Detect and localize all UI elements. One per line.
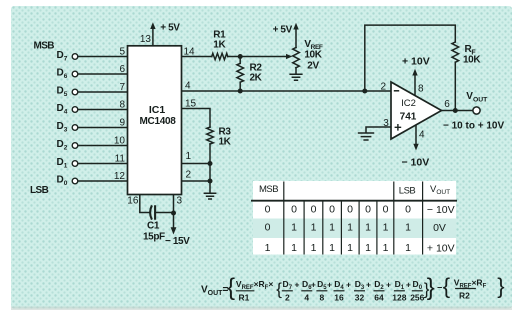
svg-text:1K: 1K xyxy=(213,40,226,51)
svg-text:0: 0 xyxy=(405,204,411,216)
junction node feedback/inverting input xyxy=(362,89,367,94)
svg-text:− 10V: − 10V xyxy=(402,157,430,169)
svg-text:2K: 2K xyxy=(250,73,263,84)
svg-text:1: 1 xyxy=(291,222,297,234)
formula fraction VREF RF over R2 xyxy=(454,278,487,301)
junction node R3/pin 1 xyxy=(208,161,213,166)
junction node pin 2/ground xyxy=(208,179,213,184)
label VREF 10K 2V xyxy=(304,39,323,72)
feedback wire from inverting node to RF xyxy=(365,25,456,91)
svg-text:7: 7 xyxy=(119,82,125,93)
svg-text:1: 1 xyxy=(311,222,317,234)
svg-text:1: 1 xyxy=(329,242,335,254)
svg-text:8: 8 xyxy=(119,100,125,111)
svg-text:{: { xyxy=(227,274,235,301)
svg-text:8: 8 xyxy=(418,84,424,95)
wire +10V arrow shaft pin 8 xyxy=(414,75,416,96)
svg-text:0: 0 xyxy=(311,204,317,216)
svg-text:2: 2 xyxy=(380,82,386,93)
formula D0 over 256 xyxy=(410,279,424,303)
svg-text:14: 14 xyxy=(184,47,196,58)
wire pin 3 to -15V xyxy=(173,195,175,229)
svg-text:R2: R2 xyxy=(459,291,470,301)
formula D2 over 64 xyxy=(374,279,392,303)
ground at VREF xyxy=(289,74,302,80)
svg-text:+: + xyxy=(406,280,411,290)
arrowhead +5V at VREF xyxy=(293,23,298,30)
svg-text:6: 6 xyxy=(444,99,450,110)
svg-text:4: 4 xyxy=(304,293,309,303)
svg-text:− 10V: − 10V xyxy=(427,204,455,216)
svg-text:1: 1 xyxy=(383,242,389,254)
svg-text:{: { xyxy=(443,274,450,299)
table row 1: 00000000 = -10V xyxy=(265,204,455,217)
svg-text:10: 10 xyxy=(114,136,126,147)
svg-text:9: 9 xyxy=(119,118,125,129)
table header underline xyxy=(251,200,457,202)
wire pin 14 to R1 xyxy=(182,56,212,58)
wire op-amp output to VOUT terminal xyxy=(442,110,473,112)
resistor R3 xyxy=(207,127,214,144)
input D1 terminal xyxy=(57,157,128,169)
svg-text:64: 64 xyxy=(374,293,384,303)
label R2 value xyxy=(250,63,263,84)
junction node R2/pin4 wire xyxy=(238,89,243,94)
svg-text:1: 1 xyxy=(329,222,335,234)
svg-text:MSB: MSB xyxy=(34,41,55,52)
svg-text:IC1: IC1 xyxy=(149,104,166,116)
wire +5V supply to pin 13 xyxy=(152,29,154,46)
svg-text:+: + xyxy=(311,280,316,290)
ground at op-amp pin 3 xyxy=(358,133,374,140)
resistor R2 xyxy=(237,57,244,92)
svg-text:2: 2 xyxy=(285,293,290,303)
svg-text:741: 741 xyxy=(400,112,417,123)
formula D4 over 16 xyxy=(334,279,352,303)
table vertical lines xyxy=(284,182,423,255)
svg-text:0: 0 xyxy=(383,204,389,216)
svg-text:5: 5 xyxy=(119,47,125,58)
svg-text:− 15V: − 15V xyxy=(165,236,190,247)
svg-text:LSB: LSB xyxy=(30,185,49,196)
formula D5 over 8 xyxy=(316,279,332,303)
resistor R1 xyxy=(212,53,228,59)
svg-text:11: 11 xyxy=(115,154,126,165)
label C1 value xyxy=(143,221,165,243)
svg-text:6: 6 xyxy=(119,64,125,75)
label RF value xyxy=(463,44,481,66)
svg-text:+: + xyxy=(327,280,332,290)
svg-text:1: 1 xyxy=(365,242,371,254)
svg-text:}: } xyxy=(427,274,435,301)
svg-text:−: − xyxy=(437,283,442,293)
svg-text:1: 1 xyxy=(265,242,271,254)
formula D1 over 128 xyxy=(392,279,411,303)
svg-text:1: 1 xyxy=(347,242,353,254)
svg-text:1: 1 xyxy=(186,151,192,162)
arrowhead +5V at pin 13 xyxy=(150,22,155,29)
svg-text:15: 15 xyxy=(185,99,197,110)
svg-text:10K: 10K xyxy=(463,55,481,66)
formula D3 over 32 xyxy=(354,279,371,303)
op-amp U2 triangle xyxy=(391,82,442,139)
formula D7 over 2 xyxy=(282,279,300,303)
svg-text:256: 256 xyxy=(410,293,424,303)
svg-text:8: 8 xyxy=(320,293,325,303)
svg-text:0: 0 xyxy=(265,222,271,234)
svg-text:16: 16 xyxy=(127,196,139,207)
svg-text:0: 0 xyxy=(265,204,271,216)
wire R1 to VREF wiper xyxy=(228,56,289,58)
svg-text:MC1408: MC1408 xyxy=(140,116,177,127)
input D4 terminal xyxy=(57,103,128,115)
junction node C1/pin 3 xyxy=(171,211,176,216)
svg-text:15pF: 15pF xyxy=(143,232,165,243)
input D2 terminal xyxy=(57,139,128,151)
svg-text:1: 1 xyxy=(405,242,411,254)
output voltage formula xyxy=(201,274,505,303)
svg-text:R1: R1 xyxy=(239,293,250,303)
svg-text:0: 0 xyxy=(329,204,335,216)
capacitor C1 xyxy=(150,205,155,220)
truth table xyxy=(251,181,457,255)
potentiometer VREF zigzag xyxy=(293,48,300,68)
svg-text:4: 4 xyxy=(185,81,191,92)
wire pin 1 xyxy=(182,163,211,165)
label R3 value xyxy=(219,127,232,148)
arrowhead -15V below pin 3 xyxy=(171,227,177,234)
svg-text:10K: 10K xyxy=(304,50,322,61)
input D7 terminal xyxy=(57,50,128,62)
formula D6 over 4 xyxy=(301,279,316,303)
wire op-amp pin 3 to ground xyxy=(366,127,391,132)
svg-text:{: { xyxy=(276,280,282,299)
svg-text:4: 4 xyxy=(419,130,425,141)
wire pin 16 to C1 xyxy=(140,195,149,213)
IC1 MC1408 body xyxy=(128,46,182,195)
svg-text:+: + xyxy=(295,280,300,290)
svg-text:}: } xyxy=(497,274,504,299)
svg-text:0V: 0V xyxy=(433,222,446,234)
svg-text:1K: 1K xyxy=(219,137,232,148)
svg-text:+ 5V: + 5V xyxy=(160,23,180,34)
svg-text:0: 0 xyxy=(347,204,353,216)
label R1 value xyxy=(213,30,226,51)
VOUT terminal xyxy=(473,107,480,114)
svg-text:1: 1 xyxy=(291,242,297,254)
wire pin 4 to op-amp inverting input xyxy=(182,90,392,92)
wire R3 to node of pin 1 xyxy=(209,144,211,164)
svg-text:+: + xyxy=(366,280,371,290)
table white background xyxy=(253,181,456,255)
svg-text:12: 12 xyxy=(114,171,126,182)
svg-text:16: 16 xyxy=(334,293,344,303)
table row 2: 01111111 = 0V xyxy=(265,222,446,235)
svg-text:+ 5V: + 5V xyxy=(273,25,293,36)
table middle row tinted xyxy=(253,219,456,239)
svg-text:13: 13 xyxy=(140,34,152,45)
table row 3: 11111111 = +10V xyxy=(265,242,455,255)
svg-text:3: 3 xyxy=(177,196,183,207)
svg-text:2: 2 xyxy=(186,170,192,181)
wire RF to output node xyxy=(454,62,456,110)
svg-text:+ 10V: + 10V xyxy=(402,56,430,68)
svg-text:0: 0 xyxy=(291,204,297,216)
svg-text:IC2: IC2 xyxy=(401,98,416,109)
svg-text:32: 32 xyxy=(355,293,365,303)
svg-text:+: + xyxy=(386,280,391,290)
junction node R1/R2/wiper xyxy=(238,54,243,59)
svg-text:1: 1 xyxy=(347,222,353,234)
wire -10V arrow shaft pin 4 xyxy=(415,125,417,145)
svg-text:1: 1 xyxy=(383,222,389,234)
arrowhead -10V pin 4 xyxy=(413,144,418,151)
svg-text:0: 0 xyxy=(365,204,371,216)
svg-text:LSB: LSB xyxy=(399,186,416,197)
arrowhead +10V pin 8 xyxy=(412,69,417,76)
wire C1 to pin 3 wire xyxy=(155,212,174,214)
input D6 terminal xyxy=(57,68,128,80)
svg-text:− 10 to + 10V: − 10 to + 10V xyxy=(443,121,504,132)
svg-text:1: 1 xyxy=(311,242,317,254)
input D0 terminal xyxy=(57,175,128,187)
svg-text:1: 1 xyxy=(405,222,411,234)
resistor RF xyxy=(452,42,459,62)
input D5 terminal xyxy=(57,86,128,98)
svg-text:+: + xyxy=(346,280,351,290)
formula fraction VREF RF over R1 xyxy=(236,279,273,303)
wire pin 15 xyxy=(182,109,211,128)
svg-text:128: 128 xyxy=(392,293,406,303)
wire pin 2 to ground xyxy=(182,164,211,193)
junction node RF/output xyxy=(453,108,458,113)
input D3 terminal xyxy=(57,121,128,133)
arrowhead wiper of VREF xyxy=(286,54,292,59)
svg-text:C1: C1 xyxy=(147,221,160,232)
svg-text:2V: 2V xyxy=(307,61,319,72)
svg-text:3: 3 xyxy=(383,118,389,129)
svg-text:MSB: MSB xyxy=(259,184,278,195)
svg-text:+ 10V: + 10V xyxy=(427,243,455,255)
ground below pin 2 xyxy=(204,193,217,199)
svg-text:1: 1 xyxy=(365,222,371,234)
potentiometer VREF body wires xyxy=(295,29,297,74)
